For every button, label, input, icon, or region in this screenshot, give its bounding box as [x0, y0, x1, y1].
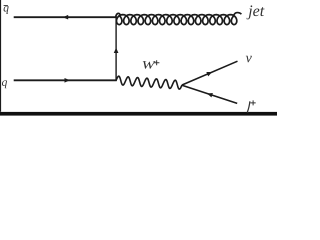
lepton arrow (points back toward vertex) — [207, 93, 213, 97]
label jet — [246, 5, 252, 19]
overline of qbar — [4, 5, 8, 7]
label lepton l — [247, 101, 249, 112]
label q — [2, 80, 7, 88]
internal quark propagator (vertical) — [115, 17, 117, 82]
vertical propagator arrow (points up) — [114, 48, 119, 53]
antiquark arrow (points left) — [63, 15, 68, 20]
label nu — [246, 56, 252, 63]
quark arrow (points right) — [65, 78, 70, 83]
incoming quark line (bottom) — [14, 79, 117, 81]
label lepton plus superscript — [251, 100, 256, 105]
lepton line — [182, 85, 237, 103]
label W — [143, 61, 156, 69]
W+ boson wavy line — [116, 76, 182, 89]
neutrino line — [182, 61, 238, 85]
neutrino arrow (outgoing) — [206, 72, 212, 76]
gluon coil to jet — [116, 13, 242, 25]
label qbar — [4, 6, 9, 14]
incoming antiquark line (top) — [14, 16, 117, 18]
bottom frame rule — [0, 112, 277, 116]
label W plus superscript — [154, 60, 160, 65]
left frame border — [0, 0, 1, 112]
